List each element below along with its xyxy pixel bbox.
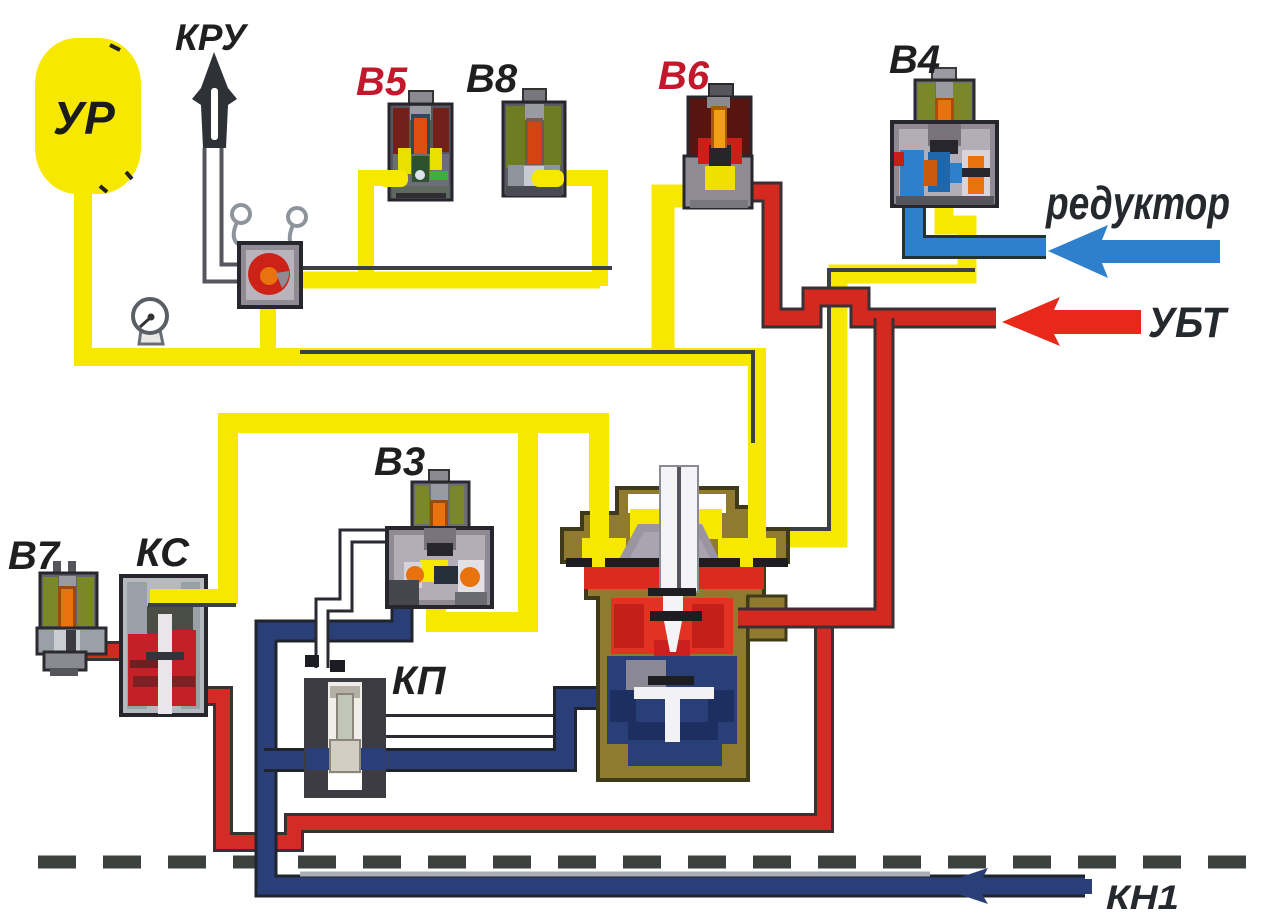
svg-text:В6: В6 (658, 54, 710, 98)
svg-text:В8: В8 (466, 57, 518, 101)
svg-text:В3: В3 (374, 440, 425, 484)
svg-text:КП: КП (392, 659, 447, 703)
svg-text:редуктор: редуктор (1044, 177, 1230, 229)
svg-text:КН1: КН1 (1106, 879, 1179, 917)
svg-text:КРУ: КРУ (175, 17, 249, 58)
svg-text:В7: В7 (8, 534, 61, 578)
svg-text:УБТ: УБТ (1148, 299, 1229, 347)
svg-text:В5: В5 (356, 60, 408, 104)
svg-text:УР: УР (53, 92, 115, 144)
svg-text:В4: В4 (889, 38, 940, 82)
svg-text:КС: КС (136, 531, 190, 575)
